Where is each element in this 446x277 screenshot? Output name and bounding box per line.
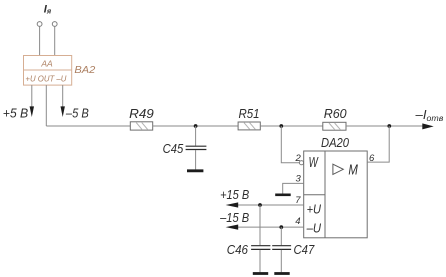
capacitor C47 <box>272 227 291 272</box>
arrow output <box>422 123 433 129</box>
op-amp DA20 <box>304 151 368 238</box>
svg-text:R51: R51 <box>239 106 260 121</box>
svg-text:3: 3 <box>296 174 302 185</box>
wire bus segment 1 <box>46 125 130 127</box>
capacitor C46 <box>251 205 270 272</box>
wire OUT pin to bus <box>45 85 47 126</box>
svg-text:R49: R49 <box>129 106 154 121</box>
label DA20 <box>321 135 350 150</box>
svg-text:C47: C47 <box>294 242 315 257</box>
pin number 3 <box>296 174 302 185</box>
label +5 V <box>3 106 29 121</box>
svg-text:+U OUT –U: +U OUT –U <box>25 73 67 83</box>
wire bus segment 2 <box>153 125 238 127</box>
capacitor C45 <box>186 126 207 169</box>
svg-text:W: W <box>309 155 319 171</box>
arrow +5V <box>30 106 34 117</box>
label -15 V <box>219 210 249 225</box>
svg-text:+5 В: +5 В <box>3 106 29 121</box>
label C45 <box>163 141 184 156</box>
wire bus segment 4 <box>346 125 423 127</box>
svg-text:Iя: Iя <box>44 4 52 16</box>
label -Iотв <box>415 107 444 123</box>
svg-text:C45: C45 <box>163 141 184 156</box>
svg-text:–15 В: –15 В <box>219 210 249 225</box>
svg-text:BA2: BA2 <box>74 64 95 76</box>
node junction output <box>387 124 391 128</box>
resistor R60 <box>323 122 346 130</box>
svg-text:7: 7 <box>295 195 301 206</box>
arrow -5V <box>61 106 65 117</box>
svg-text:6: 6 <box>369 153 375 164</box>
pin 2 circle <box>299 161 303 165</box>
terminal circle right <box>52 22 57 27</box>
svg-text:+15 В: +15 В <box>220 187 249 202</box>
wire pin 4 <box>238 226 304 228</box>
ground pin 3 <box>275 194 291 197</box>
svg-text:M: M <box>348 162 358 178</box>
svg-text:–5 В: –5 В <box>65 106 89 121</box>
wire pin 3 <box>283 183 304 193</box>
wire terminal left <box>39 26 41 55</box>
svg-text:4: 4 <box>295 216 300 227</box>
wire bus segment 3 <box>260 125 323 127</box>
svg-text:2: 2 <box>295 153 302 164</box>
node junction to DA20 input <box>279 124 283 128</box>
svg-text:C46: C46 <box>227 242 249 257</box>
wire pin 7 <box>238 204 304 206</box>
label -5 V <box>65 106 89 121</box>
amplifier triangle <box>333 164 343 174</box>
label R49 <box>129 106 154 121</box>
label +15 V <box>220 187 249 202</box>
ground C46 <box>253 272 268 275</box>
label R51 <box>239 106 260 121</box>
pin number 4 <box>295 216 300 227</box>
node junction C46 <box>258 203 262 207</box>
svg-text:AA: AA <box>40 58 53 68</box>
wire pin 6 <box>367 126 389 162</box>
pin number 7 <box>295 195 301 206</box>
arrow -15V <box>226 225 239 230</box>
terminal circle left <box>37 22 42 27</box>
wire terminal right <box>54 26 56 55</box>
pin number 6 <box>369 153 375 164</box>
resistor R51 <box>238 122 260 130</box>
svg-text:–Iотв: –Iотв <box>415 107 444 123</box>
node junction C45 <box>194 124 198 128</box>
label R60 <box>324 106 348 121</box>
label C46 <box>227 242 249 257</box>
wire -5V pin <box>62 85 64 108</box>
resistor R49 <box>130 122 152 130</box>
svg-text:R60: R60 <box>324 106 348 121</box>
ground C45 <box>187 169 203 172</box>
svg-text:DA20: DA20 <box>321 135 350 150</box>
current label Iя <box>44 4 52 16</box>
pin number 2 <box>295 153 302 164</box>
label BA2 <box>74 64 95 76</box>
svg-text:+U: +U <box>307 201 322 216</box>
wire +5V pin <box>31 85 33 108</box>
node junction C47 <box>279 225 283 229</box>
ground C47 <box>274 272 289 275</box>
label C47 <box>294 242 315 257</box>
sensor block BA2 <box>24 56 72 86</box>
wire pin 2 <box>281 126 299 163</box>
arrow +15V <box>226 202 239 207</box>
svg-text:–U: –U <box>306 220 322 235</box>
